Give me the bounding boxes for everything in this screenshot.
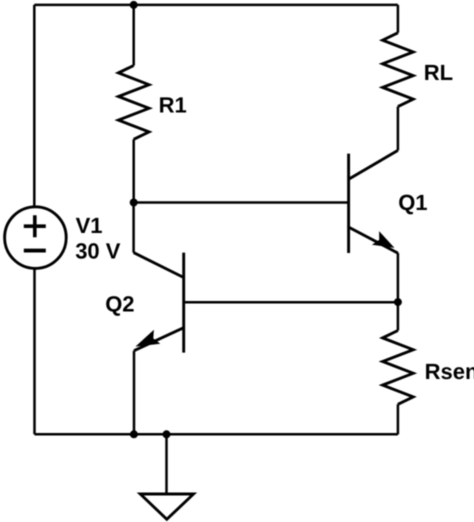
svg-text:RL: RL [424,60,453,85]
svg-text:Q1: Q1 [398,190,427,215]
svg-text:Q2: Q2 [105,291,134,316]
svg-text:30 V: 30 V [75,238,121,263]
svg-text:R1: R1 [159,92,187,117]
svg-text:V1: V1 [76,213,103,238]
svg-text:Rsense: Rsense [425,359,474,384]
